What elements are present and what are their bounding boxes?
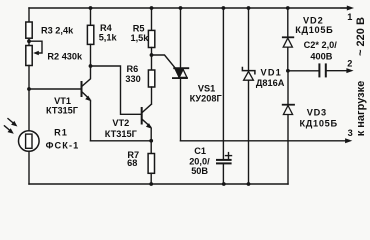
wire VT1 emitter to node [91, 140, 152, 142]
node top-R4 [89, 6, 93, 10]
svg-text:1,5k: 1,5k [131, 33, 150, 43]
svg-text:КТ315Г: КТ315Г [105, 129, 138, 139]
photoresistor R1 [19, 131, 40, 152]
svg-text:R3 2,4k: R3 2,4k [41, 25, 74, 35]
label terminal 1 [347, 12, 352, 22]
label VD2 [295, 16, 333, 35]
node top-C1 [222, 6, 226, 10]
node top-VS1 [179, 6, 183, 10]
svg-text:С1: С1 [194, 146, 206, 156]
label R3 [41, 25, 74, 35]
resistor R6 [148, 55, 154, 104]
label VT1 [46, 96, 79, 115]
svg-text:3: 3 [348, 128, 353, 138]
svg-text:VD3: VD3 [307, 107, 327, 117]
diode VD2 [283, 8, 294, 71]
wire gate VS1 [152, 55, 176, 68]
wire R3 to R2 [28, 38, 30, 45]
svg-text:R4: R4 [100, 23, 113, 33]
svg-text:КУ208Г: КУ208Г [190, 94, 223, 104]
transistor VT2 [142, 104, 152, 141]
svg-text:~ 220 В: ~ 220 В [355, 17, 367, 56]
wiper arm R2 [29, 41, 42, 55]
resistor R5 [148, 8, 154, 55]
label to load [355, 81, 367, 137]
svg-text:С2* 2,0/: С2* 2,0/ [304, 40, 338, 50]
svg-text:330: 330 [125, 74, 140, 84]
label C2 [304, 40, 338, 61]
label VD3 [300, 107, 338, 128]
transistor VT1 [82, 66, 92, 141]
node R4-collector junction [89, 64, 93, 68]
terminal arrow 3 [345, 138, 352, 143]
light arrow a [8, 119, 17, 127]
label R5 [131, 23, 150, 43]
svg-text:КД105Б: КД105Б [295, 25, 333, 35]
svg-text:R1: R1 [54, 127, 68, 137]
label R2 [47, 51, 83, 61]
label R1 [46, 127, 80, 150]
label R6 [125, 64, 140, 84]
label C1 [189, 146, 210, 176]
plus sign C1 [226, 153, 232, 159]
diode VD3 [283, 71, 294, 184]
label VT2 [105, 118, 138, 139]
svg-text:VD1: VD1 [261, 67, 282, 77]
capacitor C1 [217, 8, 231, 184]
svg-text:R2 430k: R2 430k [47, 51, 83, 61]
svg-text:R5: R5 [133, 23, 145, 33]
resistor R7 [148, 141, 154, 184]
wire R1 to bottom rail [28, 151, 30, 184]
wire R4 junction to VT2 base [91, 66, 142, 114]
node R3-R2 junction [27, 39, 31, 43]
svg-text:5,1k: 5,1k [99, 33, 118, 43]
label VD1 [256, 67, 285, 88]
label terminal 2 [347, 59, 352, 69]
node bottom-R7 [149, 182, 153, 186]
wire load line [181, 140, 347, 142]
node emitter junction [149, 139, 153, 143]
wire R2 to R1 [28, 66, 30, 131]
svg-text:к нагрузке: к нагрузке [355, 81, 367, 137]
node top-VD1 [247, 6, 251, 10]
resistor R3 [26, 22, 32, 38]
resistor R4 [87, 8, 93, 66]
wire bottom rail [29, 183, 288, 185]
triac VS1 [173, 8, 188, 141]
svg-text:ФСК-1: ФСК-1 [46, 141, 80, 151]
node bottom-C1 [222, 182, 226, 186]
resistor R2 (trimmer) [26, 46, 32, 66]
node bottom-VD1 [247, 182, 251, 186]
label VS1 [190, 83, 223, 103]
svg-text:R6: R6 [127, 64, 139, 74]
svg-text:КТ315Г: КТ315Г [46, 105, 79, 115]
svg-text:VS1: VS1 [198, 83, 215, 93]
svg-text:400В: 400В [310, 51, 332, 61]
svg-text:КД105Б: КД105Б [300, 118, 338, 128]
node C2 tap [286, 69, 290, 73]
terminal arrow 1 [341, 6, 354, 11]
svg-text:2: 2 [347, 59, 352, 69]
zener VD1 [242, 8, 255, 184]
svg-text:VT2: VT2 [112, 118, 129, 128]
svg-text:50В: 50В [191, 166, 208, 176]
wire base VT1 [29, 88, 81, 90]
label R4 [99, 23, 118, 43]
svg-text:68: 68 [127, 158, 137, 168]
capacitor C2 [288, 64, 348, 76]
svg-text:Д816А: Д816А [256, 78, 285, 88]
terminal arrow 2 [346, 68, 353, 73]
node R5-R6-gate junction [150, 53, 154, 57]
wire top rail [29, 7, 348, 9]
wire left rail upper [28, 8, 30, 22]
node top-VD2 [286, 6, 290, 10]
svg-text:1: 1 [347, 12, 352, 22]
node base tap [27, 87, 31, 91]
light arrow b [4, 126, 13, 134]
label terminal 3 [348, 128, 353, 138]
node top-R5 [150, 6, 154, 10]
label R7 [127, 150, 139, 168]
label mains 220V [355, 17, 367, 56]
